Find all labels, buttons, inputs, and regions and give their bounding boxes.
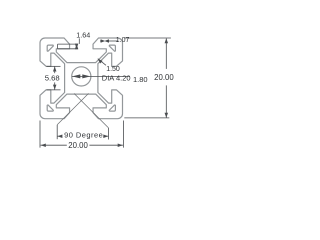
svg-text:DIA 4.20: DIA 4.20	[102, 73, 131, 82]
svg-text:1.64: 1.64	[76, 30, 90, 39]
corner hole bottom-left	[47, 105, 53, 111]
dim 1.07	[100, 40, 102, 42]
svg-text:1.07: 1.07	[116, 37, 130, 44]
dim 20.00 bottom	[39, 121, 41, 148]
center bore	[72, 67, 91, 86]
dim 5.68	[47, 65, 61, 67]
extrusion profile outline	[40, 38, 123, 119]
dim 20.00 right	[124, 37, 171, 39]
dim 1.50	[98, 59, 103, 64]
svg-text:1.50: 1.50	[106, 66, 120, 73]
svg-text:1.80: 1.80	[133, 75, 148, 84]
dim 1.64	[58, 43, 78, 45]
svg-text:20.00: 20.00	[154, 73, 174, 82]
dim 90 Degree	[57, 93, 88, 124]
corner hole bottom-right	[109, 105, 115, 111]
svg-text:90 Degree: 90 Degree	[64, 131, 103, 140]
svg-text:20.00: 20.00	[68, 141, 88, 150]
corner hole top-right	[109, 45, 115, 51]
svg-text:5.68: 5.68	[45, 74, 60, 83]
corner hole top-left	[47, 45, 53, 51]
dim DIA 4.20	[72, 75, 130, 77]
